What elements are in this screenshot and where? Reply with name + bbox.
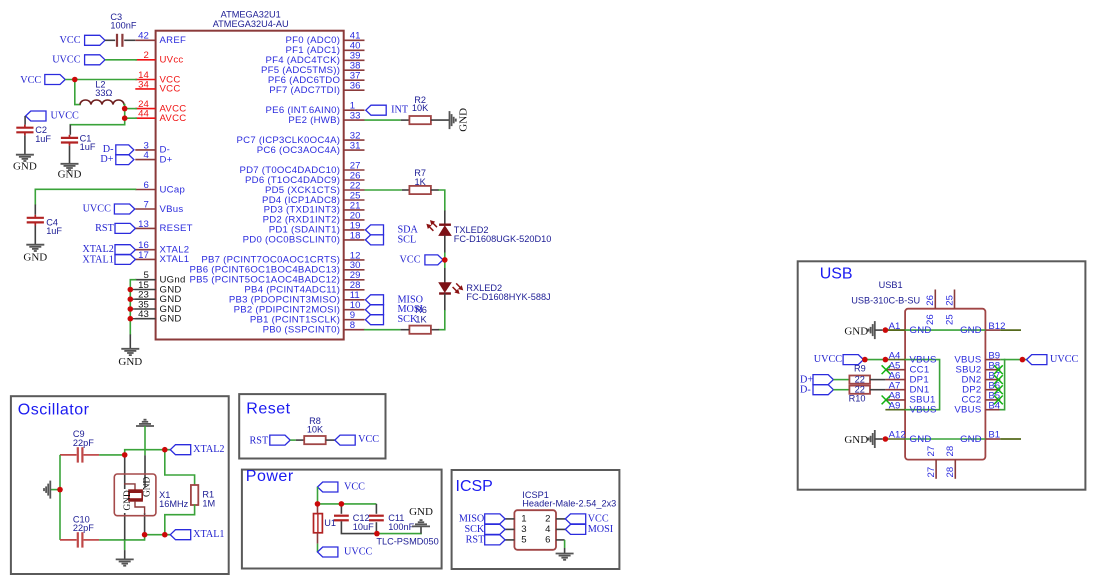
- no-connect B6: [994, 385, 1003, 394]
- junction osc gnd: [57, 487, 63, 493]
- svg-text:PF7 (ADC7TDI): PF7 (ADC7TDI): [269, 85, 340, 96]
- svg-text:17: 17: [138, 250, 149, 261]
- svg-text:A12: A12: [889, 430, 906, 441]
- svg-text:GND: GND: [160, 314, 182, 325]
- svg-text:1K: 1K: [414, 177, 426, 187]
- wire C1 to GND: [69, 143, 71, 146]
- capacitor C3: [110, 12, 136, 47]
- USB pin A4 VBUS: [885, 350, 936, 365]
- pin 43 GND (left): [135, 309, 181, 324]
- pin 37 PF6 (ADC6TDO (right): [268, 71, 365, 86]
- junction uvcc left a: [862, 357, 868, 363]
- svg-text:USB-310C-B-SU: USB-310C-B-SU: [851, 295, 920, 305]
- wire C4 to GND: [34, 222, 36, 225]
- svg-text:VCC: VCC: [60, 35, 81, 46]
- labels MISO MOSI SCK: [365, 294, 423, 325]
- svg-text:10K: 10K: [412, 103, 429, 113]
- USB pin B8 SBU2: [955, 360, 1000, 375]
- svg-text:25: 25: [944, 314, 955, 325]
- wire C12 top: [340, 504, 342, 514]
- USB pin A1 GND: [885, 321, 931, 336]
- pin 12 PB7 (PCINT7OC0AOC1CRTS) (right): [201, 250, 364, 265]
- connector USB1 body: [905, 309, 985, 460]
- svg-text:1uF: 1uF: [35, 134, 51, 144]
- svg-text:XTAL2: XTAL2: [193, 444, 224, 455]
- junction uvcc left b: [883, 357, 889, 363]
- global label INT: [366, 105, 409, 116]
- svg-text:UVcc: UVcc: [160, 55, 184, 66]
- ground USB top: [844, 321, 882, 339]
- pin 14 VCC (left): [135, 70, 180, 85]
- ICSP pins 5/6: [505, 535, 550, 546]
- wire uvcc left to A4: [864, 359, 886, 361]
- svg-text:1uF: 1uF: [80, 142, 96, 152]
- USB pin B1 GND: [960, 430, 1021, 445]
- pin 16 XTAL2 (left): [135, 240, 189, 255]
- wire C11 top: [375, 504, 377, 514]
- svg-text:XTAL1: XTAL1: [82, 254, 113, 265]
- junction power a: [315, 501, 321, 507]
- svg-text:4: 4: [143, 150, 149, 161]
- svg-text:INT: INT: [391, 105, 409, 116]
- pin 10 PB2 (PDIPCINT2MOSI) (right): [234, 300, 365, 315]
- pin 35 GND (left): [135, 299, 181, 314]
- junction GND 43: [128, 316, 134, 322]
- wire UVCC to C2: [24, 116, 26, 125]
- no-connect B5: [994, 396, 1003, 405]
- junction GND 23: [128, 296, 134, 302]
- pin 18 PD0 (OC0BSCLINT0) (right): [243, 230, 365, 245]
- resistor R9 22: [849, 364, 870, 385]
- wire R10 to A7: [870, 389, 885, 391]
- LED RXLED2: [439, 283, 551, 302]
- svg-text:SCK: SCK: [398, 314, 418, 325]
- wire usb gnd top: [885, 329, 905, 331]
- pin 1 PE6 (INT.6AIN0) (right): [266, 101, 365, 116]
- ground IC GND pins: [118, 349, 142, 368]
- label SCK icsp: [464, 524, 505, 535]
- svg-text:D-: D-: [800, 385, 811, 396]
- junction GND 15: [128, 287, 134, 293]
- wire bottom rail to GND: [377, 533, 421, 535]
- label XTAL1 osc: [170, 529, 224, 540]
- wire crystal right top: [144, 455, 146, 487]
- pin 4 D+ (left): [135, 150, 172, 165]
- wire RXLED2 down: [444, 294, 446, 311]
- svg-text:TLC-PSMD050: TLC-PSMD050: [376, 537, 438, 547]
- pin 5 UGnd (left): [135, 270, 185, 285]
- ground USB bottom: [844, 430, 882, 448]
- svg-text:VCC: VCC: [20, 75, 41, 86]
- wire AVCC to C1: [70, 118, 124, 125]
- svg-text:7: 7: [143, 199, 148, 210]
- junction power b: [339, 501, 345, 507]
- svg-text:100nF: 100nF: [110, 21, 136, 31]
- svg-text:36: 36: [350, 81, 361, 92]
- pin 28 PB4 (PCINT4ADC11) (right): [244, 280, 364, 295]
- wire pin33 to R2: [365, 119, 401, 121]
- wire XTAL1 row: [145, 534, 171, 536]
- svg-text:UVCC: UVCC: [52, 54, 81, 65]
- label VCC power: [318, 482, 366, 493]
- svg-text:6: 6: [143, 180, 148, 191]
- svg-text:4: 4: [545, 524, 551, 535]
- wire D- to R10: [833, 389, 849, 391]
- pin 7 VBus (left): [135, 199, 183, 214]
- capacitor C1: [61, 134, 96, 153]
- capacitor C10: [60, 514, 99, 547]
- wire R7 to LED column: [431, 189, 439, 191]
- labels SDA SCL: [365, 224, 418, 245]
- USB bottom pin 28: [945, 446, 956, 479]
- ground icsp: [556, 554, 574, 560]
- svg-text:31: 31: [350, 141, 361, 152]
- pin 31 PC6 (OC3AOC4A) (right): [257, 141, 365, 156]
- svg-text:28: 28: [945, 467, 956, 478]
- crystal X1 16MHz: [114, 474, 188, 516]
- svg-text:27: 27: [926, 446, 937, 457]
- svg-text:RESET: RESET: [160, 223, 193, 234]
- svg-text:ATMEGA32U4-AU: ATMEGA32U4-AU: [213, 19, 289, 29]
- wire pin22 to R7: [365, 189, 402, 191]
- svg-text:RST: RST: [95, 223, 114, 234]
- fuse U1: [314, 504, 337, 544]
- svg-text:UVCC: UVCC: [344, 547, 373, 558]
- pin 40 PF1 (ADC1) (right): [285, 41, 364, 56]
- svg-text:VBUS: VBUS: [910, 405, 937, 416]
- pin 29 PB5 (PCINT5OC1AOC4BADC12) (right): [189, 270, 364, 285]
- label XTAL2 osc: [170, 444, 224, 455]
- wire D+ to R9: [833, 379, 849, 381]
- capacitor C11: [369, 513, 415, 532]
- pin 25 PD4 (ICP1ADC8) (right): [262, 190, 364, 205]
- svg-text:33Ω: 33Ω: [95, 88, 112, 98]
- capacitor C2: [16, 125, 51, 144]
- ICSP pins 3/4: [505, 524, 565, 535]
- pin 8 PB0 (SSPCINT0) (right): [263, 320, 365, 335]
- USB pin A7 DN1: [885, 380, 929, 395]
- svg-text:28: 28: [945, 446, 956, 457]
- svg-text:43: 43: [138, 309, 149, 320]
- svg-text:22: 22: [855, 385, 865, 395]
- svg-text:MISO: MISO: [459, 514, 484, 525]
- pin 42 AREF (left): [135, 31, 186, 46]
- USB pin B7 DN2: [962, 370, 1001, 385]
- wire UVCC to pin 2: [105, 59, 137, 61]
- wire R2 to GND: [431, 119, 450, 121]
- wire crystal right bottom: [144, 535, 146, 540]
- svg-text:25: 25: [944, 295, 955, 306]
- svg-text:GND: GND: [960, 434, 981, 445]
- svg-text:UCap: UCap: [160, 184, 186, 195]
- pin 39 PF4 (ADC4TCK) (right): [266, 51, 365, 66]
- label D- usb: [800, 385, 833, 396]
- svg-text:GND: GND: [409, 506, 433, 518]
- label UVCC usb right: [1027, 354, 1079, 365]
- USB pin A8 SBU1: [885, 391, 935, 406]
- svg-text:XTAL1: XTAL1: [160, 254, 190, 265]
- global label XTAL1: [82, 254, 135, 265]
- global label UVCC (VBus): [83, 204, 135, 215]
- svg-text:UVCC: UVCC: [814, 354, 843, 365]
- USB bottom pin 27: [926, 446, 937, 479]
- svg-text:16MHz: 16MHz: [159, 499, 189, 509]
- svg-text:26: 26: [925, 314, 936, 325]
- wire VCC to C3: [105, 39, 115, 41]
- svg-text:RST: RST: [250, 436, 269, 447]
- label RST reset: [250, 435, 291, 447]
- USB top pin 25: [944, 290, 955, 326]
- wire VCC node to RXLED2: [444, 260, 446, 268]
- pin 9 PB1 (PCINT1SCLK) (right): [250, 310, 365, 325]
- pin 26 PD6 (T1OC4DADC9) (right): [245, 170, 364, 185]
- label UVCC usb left: [814, 354, 864, 365]
- global label RST: [95, 223, 135, 234]
- global label UVCC (C2): [26, 110, 79, 121]
- global label VCC (VCC pins): [20, 75, 65, 87]
- ground R2: [450, 108, 470, 132]
- svg-text:27: 27: [926, 467, 937, 478]
- capacitor C9: [60, 429, 99, 463]
- svg-text:Reset: Reset: [246, 400, 290, 417]
- wire VCC to pin 14: [65, 79, 137, 81]
- svg-text:42: 42: [138, 31, 149, 42]
- svg-text:GND: GND: [58, 169, 82, 181]
- wire UCap to C4: [34, 205, 36, 215]
- wire GND bus tail: [129, 334, 131, 348]
- svg-text:22pF: 22pF: [73, 523, 94, 533]
- svg-text:6: 6: [545, 535, 550, 546]
- ICSP box frame: [452, 470, 620, 569]
- pin 21 PD3 (TXD1INT3) (right): [264, 200, 365, 215]
- pin 19 PD1 (SDAINT1) (right): [269, 220, 365, 235]
- svg-text:GND: GND: [13, 160, 37, 172]
- pin 44 AVCC (left): [135, 109, 186, 124]
- svg-text:USB: USB: [820, 266, 853, 283]
- wire RST to R8: [290, 439, 296, 441]
- svg-text:UVCC: UVCC: [51, 110, 80, 121]
- pin 30 PB6 (PCINT6OC1BOC4BADC13) (right): [189, 260, 364, 275]
- wire osc left bus: [59, 455, 61, 540]
- svg-text:R9: R9: [854, 364, 866, 374]
- USB pin B9 VBUS: [954, 350, 1000, 365]
- USB pin A6 DP1: [885, 370, 929, 385]
- svg-text:AREF: AREF: [160, 35, 187, 46]
- svg-text:FC-D1608UGK-520D10: FC-D1608UGK-520D10: [454, 234, 552, 244]
- pin 3 D- (left): [135, 140, 170, 155]
- wire VCC down to L2: [75, 80, 80, 105]
- svg-text:10K: 10K: [307, 425, 324, 435]
- svg-text:VBUS: VBUS: [954, 405, 981, 416]
- svg-text:B12: B12: [988, 321, 1005, 332]
- pin 38 PF5 (ADC5TMS)) (right): [261, 61, 364, 76]
- junction usb gnd top: [883, 327, 889, 333]
- svg-text:D+: D+: [160, 154, 173, 165]
- Power box frame: [242, 470, 442, 569]
- inductor L2 33R: [80, 79, 124, 104]
- junction xtal1 a: [142, 532, 148, 538]
- svg-text:UVCC: UVCC: [83, 204, 112, 215]
- pin 36 PF7 (ADC7TDI) (right): [269, 81, 364, 96]
- svg-text:RST: RST: [466, 535, 485, 546]
- ground power: [409, 506, 433, 534]
- svg-text:AVCC: AVCC: [160, 113, 187, 124]
- svg-text:R10: R10: [849, 394, 866, 404]
- no-connect A5: [882, 365, 891, 374]
- svg-text:33: 33: [350, 111, 361, 122]
- junction AVCC pin44: [122, 115, 128, 121]
- svg-text:GND: GND: [960, 325, 981, 336]
- svg-text:VCC: VCC: [400, 254, 421, 265]
- junction VCC node: [72, 77, 78, 83]
- wire top gnd to XTAL2 row: [144, 426, 146, 455]
- pin 34 VCC (left): [135, 79, 180, 94]
- svg-text:22: 22: [855, 374, 865, 384]
- wire VCC down: [317, 487, 319, 504]
- wire B9 to UVCC: [1000, 359, 1026, 361]
- IC U1 ATMEGA32U4-AU body: [156, 31, 344, 340]
- svg-text:PD0 (OC0BSCLINT0): PD0 (OC0BSCLINT0): [243, 235, 341, 246]
- wire R8 to VCC: [326, 439, 335, 441]
- label VCC reset: [335, 434, 379, 445]
- wire R1 bottom: [165, 505, 195, 535]
- resistor R2 10K: [409, 95, 431, 124]
- USB top pin 26: [925, 290, 936, 326]
- svg-text:GND: GND: [458, 108, 470, 132]
- svg-text:Header-Male-2.54_2x3: Header-Male-2.54_2x3: [522, 499, 616, 509]
- svg-text:GND: GND: [143, 476, 153, 497]
- pin 23 GND (left): [135, 290, 181, 305]
- svg-text:1M: 1M: [202, 498, 215, 508]
- resistor R10 22: [849, 385, 870, 404]
- wire B4 bracket right: [1000, 360, 1004, 410]
- svg-text:ICSP: ICSP: [456, 478, 493, 495]
- ICSP pins 1/2: [505, 514, 565, 525]
- USB pin A12 GND: [885, 430, 931, 445]
- wire XTAL2 row: [125, 450, 171, 455]
- pin 13 RESET (left): [135, 219, 192, 234]
- no-connect B8: [994, 365, 1003, 374]
- wire C3 to pin 42: [124, 39, 135, 41]
- global label XTAL2: [82, 244, 135, 255]
- USB pin B6 DP2: [962, 380, 1000, 395]
- svg-text:B4: B4: [988, 400, 1000, 411]
- Oscillator box frame: [11, 396, 229, 574]
- wire C10 to crystal: [99, 539, 145, 541]
- junction power c: [374, 531, 380, 537]
- global label VCC (LED): [400, 254, 443, 265]
- svg-text:GND: GND: [844, 434, 868, 446]
- wire osc gnd stub: [50, 489, 60, 491]
- ground oscillator bottom: [116, 550, 134, 566]
- svg-text:1uF: 1uF: [46, 226, 62, 236]
- svg-text:MOSI: MOSI: [588, 524, 614, 535]
- resistor R1 1M: [191, 485, 215, 508]
- svg-text:Oscillator: Oscillator: [18, 401, 90, 418]
- svg-text:3: 3: [521, 524, 526, 535]
- wire R1 top: [165, 450, 195, 485]
- capacitor C12: [334, 513, 374, 532]
- pin 6 UCap (left): [135, 180, 185, 195]
- svg-text:2: 2: [143, 50, 148, 61]
- LED TXLED2: [427, 221, 552, 244]
- pin 24 AVCC (left): [135, 99, 186, 114]
- svg-text:34: 34: [138, 79, 149, 90]
- ground oscillator left: [44, 481, 50, 499]
- svg-text:18: 18: [350, 230, 361, 241]
- svg-text:B1: B1: [988, 430, 1000, 441]
- label D+ usb: [800, 374, 833, 385]
- labels D- D+: [100, 144, 134, 165]
- Reset box frame: [239, 394, 385, 458]
- junction AVCC pin24: [122, 106, 128, 112]
- junction GND 35: [128, 306, 134, 312]
- pin 15 GND (left): [135, 280, 181, 295]
- connector ICSP1 body: [514, 510, 556, 550]
- svg-text:GND: GND: [844, 325, 868, 337]
- svg-text:VCC: VCC: [160, 84, 181, 95]
- label VCC icsp: [565, 514, 609, 525]
- wire down to TXLED2: [444, 211, 446, 225]
- junction usb gnd bottom: [883, 436, 889, 442]
- wire R6 to pin 8: [400, 329, 409, 331]
- wire C11 bottom: [375, 522, 377, 533]
- svg-text:SCL: SCL: [398, 234, 417, 245]
- svg-text:44: 44: [138, 109, 149, 120]
- USB internal GND line bottom: [905, 438, 985, 440]
- pin 27 PD7 (T0OC4DADC10) (right): [239, 160, 364, 175]
- svg-text:13: 13: [138, 219, 149, 230]
- svg-text:100nF: 100nF: [388, 522, 414, 532]
- wire GND bus: [130, 280, 135, 335]
- USB pin A9 VBUS: [885, 400, 936, 415]
- label MISO icsp: [459, 514, 505, 525]
- svg-text:A9: A9: [889, 400, 901, 411]
- svg-text:PE2 (HWB): PE2 (HWB): [288, 115, 340, 126]
- wire power top rail: [318, 503, 377, 505]
- svg-text:VCC: VCC: [588, 514, 609, 525]
- svg-text:SCK: SCK: [464, 524, 484, 535]
- USB internal GND line top: [905, 329, 985, 331]
- pin 32 PC7 (ICP3CLK0OC4A) (right): [237, 131, 365, 146]
- svg-text:VBus: VBus: [160, 204, 184, 215]
- svg-text:GND: GND: [910, 325, 932, 336]
- svg-text:2: 2: [545, 514, 550, 525]
- svg-text:GND: GND: [910, 434, 932, 445]
- junction xtal1 b: [162, 532, 168, 538]
- global label UVCC (UVcc pin): [52, 54, 105, 65]
- pin 41 PF0 (ADC0) (right): [285, 31, 364, 46]
- svg-text:GND: GND: [123, 490, 133, 511]
- junction usb uvcc right: [1020, 357, 1026, 363]
- global label VCC (AREF net): [60, 35, 105, 46]
- wire L2 to AVCC pins: [123, 105, 126, 119]
- junction VCC LED: [442, 257, 448, 263]
- label UVCC power: [318, 547, 373, 558]
- svg-text:XTAL1: XTAL1: [193, 529, 224, 540]
- USB pin B12 GND: [960, 321, 1021, 336]
- wire C9 to junction: [99, 454, 125, 456]
- svg-text:USB1: USB1: [879, 280, 903, 290]
- svg-text:5: 5: [521, 535, 526, 546]
- svg-text:D+: D+: [100, 154, 113, 165]
- wire C12 bottom: [341, 522, 376, 533]
- svg-text:FC-D1608HYK-588J: FC-D1608HYK-588J: [466, 292, 550, 302]
- ground C2: [13, 155, 37, 173]
- junction osc xtal2-r1: [162, 447, 168, 453]
- pin 2 UVcc (left): [135, 50, 183, 65]
- svg-text:22pF: 22pF: [73, 438, 94, 448]
